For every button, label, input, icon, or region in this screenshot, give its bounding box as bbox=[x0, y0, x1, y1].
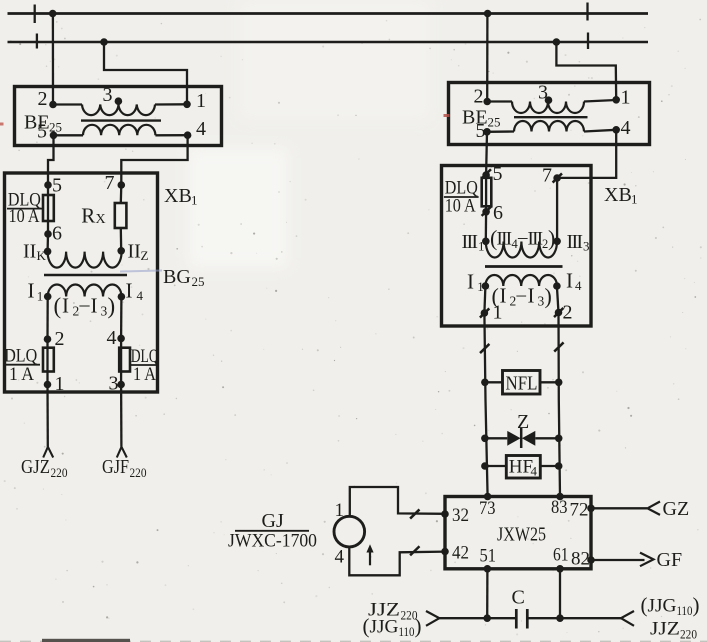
svg-text:73: 73 bbox=[479, 498, 496, 519]
fuse DLQ 1A right bbox=[120, 338, 122, 384]
svg-text:4: 4 bbox=[531, 464, 538, 479]
svg-text:83: 83 bbox=[551, 497, 568, 518]
wire I1 to XB1 pin 1 bbox=[484, 286, 485, 313]
svg-text:2: 2 bbox=[563, 302, 573, 324]
svg-text:10 A: 10 A bbox=[9, 206, 40, 227]
BE25-left pin 3 bbox=[115, 97, 123, 105]
svg-text:7: 7 bbox=[542, 165, 552, 187]
svg-text:R: R bbox=[81, 204, 95, 228]
XB1 pin 6 node with plug slash bbox=[482, 208, 490, 216]
JXW25 pin 73 bbox=[484, 493, 492, 501]
XB1 winding I bbox=[485, 275, 557, 286]
plug connector XB1 box bbox=[442, 166, 592, 327]
svg-text:220: 220 bbox=[680, 627, 697, 642]
svg-text:Z: Z bbox=[141, 248, 149, 263]
svg-text:1: 1 bbox=[37, 289, 44, 304]
BE25-left pin 4 bbox=[184, 131, 192, 139]
svg-text:110: 110 bbox=[677, 604, 693, 618]
arrow chevron GJF bbox=[117, 447, 127, 458]
svg-text:–: – bbox=[79, 294, 91, 316]
wire GJ pin4 to JXW25 pin 42 bbox=[349, 547, 445, 575]
wire pin 7 to winding III3 bbox=[556, 178, 558, 241]
filter HF4 box bbox=[506, 456, 540, 479]
bottom rail left segment bbox=[439, 617, 515, 619]
BE25-right pin 1 bbox=[612, 96, 620, 104]
junction dot NFL right bbox=[555, 379, 563, 387]
BG25 pin 5 node bbox=[44, 181, 52, 189]
polarity arrow of GJ bbox=[369, 550, 371, 566]
junction dot Z left bbox=[481, 435, 489, 443]
junction dot NFL left bbox=[481, 379, 489, 387]
winding II terminal IIk bbox=[44, 248, 52, 256]
wire pin6 to winding IIk bbox=[46, 234, 49, 251]
bus line N2 bbox=[8, 41, 649, 43]
svg-text:XB: XB bbox=[604, 184, 632, 206]
wire BE25-left pin 5 to BG25 pin 5 bbox=[48, 135, 54, 185]
svg-text:BG: BG bbox=[163, 266, 191, 288]
svg-text:4: 4 bbox=[137, 288, 144, 303]
svg-text:GJZ: GJZ bbox=[21, 456, 50, 478]
svg-text:4: 4 bbox=[196, 118, 206, 140]
junction dot bus N1 / left drop bbox=[49, 10, 57, 18]
svg-text:6: 6 bbox=[52, 223, 62, 245]
svg-text:6: 6 bbox=[493, 202, 503, 224]
bus line N1 bbox=[8, 12, 649, 15]
svg-text:XB: XB bbox=[164, 185, 192, 207]
svg-text:C: C bbox=[512, 587, 525, 609]
wire pin 6 to winding III1 bbox=[485, 212, 488, 242]
svg-text:III: III bbox=[462, 231, 478, 253]
relay JXW25 box bbox=[445, 497, 591, 569]
wire pin 72 to GZ bbox=[591, 507, 647, 509]
wire pin 61 down to rail bbox=[559, 569, 561, 618]
XB1 pin 2 node with plug slash bbox=[555, 309, 563, 317]
wire to Z left bbox=[485, 437, 507, 439]
BG25 pin 3 node bbox=[117, 381, 125, 389]
svg-text:1 A: 1 A bbox=[9, 364, 34, 385]
JXW25 pin 42 bbox=[441, 548, 449, 556]
svg-text:GF: GF bbox=[657, 549, 683, 571]
wire bus N2 to BE25-left pin 1 bbox=[104, 42, 187, 104]
svg-text:5: 5 bbox=[37, 121, 47, 143]
svg-text:Z: Z bbox=[517, 411, 529, 433]
svg-text:1: 1 bbox=[477, 279, 484, 294]
svg-text:X: X bbox=[96, 212, 106, 227]
BE25-right pin 3 bbox=[545, 96, 553, 104]
svg-text:1: 1 bbox=[196, 90, 206, 112]
BG25 pin 2 node bbox=[44, 335, 52, 343]
XB1 pin 1 node with plug slash bbox=[481, 309, 489, 317]
svg-text:3: 3 bbox=[103, 84, 113, 106]
wire XB1 pin 1 down to JXW25 pin 73 bbox=[484, 313, 487, 497]
BE25-right primary winding bbox=[487, 100, 512, 102]
junction dot bus N2 / right drop bbox=[553, 38, 561, 46]
winding II terminal IIz bbox=[117, 247, 125, 255]
XB1 winding I terminal I1 bbox=[482, 282, 490, 290]
BG25 pin 6 node bbox=[44, 230, 52, 238]
svg-text:I: I bbox=[126, 279, 133, 303]
fuse DLQ 10A (right) bbox=[485, 175, 487, 212]
transformer BE25-right box bbox=[449, 83, 650, 145]
arrow chevron GJZ bbox=[43, 447, 53, 458]
crossing tick on bus N2 left bbox=[36, 34, 38, 49]
svg-text:): ) bbox=[693, 593, 700, 617]
svg-text:): ) bbox=[545, 284, 552, 309]
svg-text:5: 5 bbox=[493, 163, 503, 185]
JXW25 pin 82 bbox=[587, 556, 595, 564]
svg-text:GJ: GJ bbox=[262, 510, 284, 532]
svg-text:NFL: NFL bbox=[506, 373, 538, 395]
BE25-left secondary winding bbox=[54, 134, 84, 136]
BG25 pin 7 node bbox=[118, 181, 126, 189]
BG25 pin 1 node bbox=[44, 381, 52, 389]
svg-text:3: 3 bbox=[101, 304, 108, 319]
wire pin 3 to GJF arrow bbox=[120, 385, 123, 447]
svg-text:5: 5 bbox=[476, 120, 486, 142]
svg-text:I: I bbox=[28, 279, 35, 303]
wire GJ pin1 to JXW25 pin 32 bbox=[350, 487, 445, 516]
svg-text:5: 5 bbox=[52, 175, 62, 197]
svg-text:–: – bbox=[516, 285, 527, 306]
BE25-left pin 1 bbox=[183, 101, 191, 109]
BE25-left pin 5 bbox=[50, 132, 58, 140]
svg-text:4: 4 bbox=[107, 327, 117, 349]
BG25 relay-transformer box bbox=[5, 173, 158, 392]
svg-text:): ) bbox=[548, 226, 555, 251]
svg-text:2: 2 bbox=[73, 304, 80, 319]
svg-text:3: 3 bbox=[538, 294, 545, 309]
BE25-right pin 2 bbox=[483, 98, 491, 106]
BE25-right secondary winding bbox=[487, 130, 514, 133]
winding III terminal III1 bbox=[482, 238, 490, 246]
crossing tick on bus N2 right bbox=[587, 33, 589, 50]
XB1 core line bbox=[485, 265, 563, 268]
wire pin 51 down to rail bbox=[486, 569, 488, 618]
svg-text:GJF: GJF bbox=[102, 456, 129, 478]
svg-text:JJG: JJG bbox=[370, 617, 399, 638]
svg-text:3: 3 bbox=[538, 82, 548, 104]
svg-text:III: III bbox=[567, 231, 583, 253]
svg-text:61: 61 bbox=[553, 545, 569, 566]
svg-text:51: 51 bbox=[480, 546, 497, 567]
red speck on XB1 edge bbox=[444, 114, 450, 117]
svg-text:I: I bbox=[62, 294, 69, 318]
capacitor C plates bbox=[515, 609, 518, 629]
bottom page-edge scan line bbox=[0, 640, 707, 642]
svg-text:10 A: 10 A bbox=[445, 196, 476, 217]
svg-text:2: 2 bbox=[510, 294, 517, 309]
svg-text:2: 2 bbox=[55, 328, 65, 350]
svg-text:II: II bbox=[23, 241, 36, 263]
XB1 winding I terminal I4 bbox=[553, 282, 561, 290]
junction dot rail right bbox=[556, 614, 564, 622]
JXW25 pin 51 bbox=[484, 565, 492, 573]
BE25-left core line bbox=[81, 119, 161, 121]
wire from HF4 right bbox=[540, 465, 558, 467]
relay GJ coil circle bbox=[334, 516, 365, 547]
svg-text:220: 220 bbox=[51, 465, 68, 480]
svg-text:25: 25 bbox=[192, 274, 205, 289]
BE25-right core line bbox=[514, 116, 588, 118]
wire from NFL right bbox=[540, 381, 559, 383]
svg-text:1: 1 bbox=[55, 373, 65, 395]
svg-text:(: ( bbox=[54, 294, 62, 319]
fuse DLQ 1A left bbox=[46, 339, 48, 384]
junction dot HF4 right bbox=[555, 462, 563, 470]
BG25 pin 4 node bbox=[117, 335, 125, 343]
BE25-left primary winding bbox=[53, 103, 82, 105]
BG25 winding I bbox=[48, 284, 122, 296]
svg-text:JXW25: JXW25 bbox=[497, 524, 546, 546]
wire pin 1 to GJZ arrow bbox=[46, 385, 49, 447]
svg-text:JJZ: JJZ bbox=[650, 619, 680, 640]
svg-text:I: I bbox=[91, 294, 98, 318]
arrow chevron GZ bbox=[648, 502, 661, 515]
svg-text:GZ: GZ bbox=[663, 498, 690, 520]
svg-text:2: 2 bbox=[38, 88, 48, 110]
wire pin 82 to GF bbox=[591, 559, 645, 561]
svg-text:I: I bbox=[566, 269, 573, 293]
svg-text:HF: HF bbox=[509, 457, 533, 478]
XB1 pin 5 node with plug slash bbox=[482, 171, 490, 179]
wire bus N1 to BE25-right pin 2 bbox=[486, 14, 488, 102]
junction dot bus N2 / left drop bbox=[100, 38, 108, 46]
BG25 core line bbox=[44, 274, 127, 277]
svg-text:110: 110 bbox=[399, 625, 415, 639]
JXW25 pin 32 bbox=[441, 510, 449, 518]
winding I terminal I1 bbox=[44, 293, 52, 301]
plug slash near pin 42 bbox=[410, 546, 419, 555]
junction dot bus N1 / right drop bbox=[484, 10, 492, 18]
svg-text:1 A: 1 A bbox=[133, 364, 156, 385]
XB1 pin 7 node with plug slash bbox=[553, 174, 561, 182]
BE25-right pin 5 bbox=[483, 128, 491, 136]
svg-text:1: 1 bbox=[631, 192, 638, 207]
svg-text:1: 1 bbox=[493, 302, 503, 324]
wire from Z right bbox=[535, 437, 558, 439]
JXW25 pin 83 bbox=[556, 493, 564, 501]
wire XB1 pin 2 down to JXW25 pin 83 bbox=[559, 313, 561, 497]
bottom rail right segment bbox=[528, 617, 621, 619]
rail chevron right bbox=[621, 611, 634, 626]
svg-text:1: 1 bbox=[191, 193, 198, 208]
plug slash on left column bbox=[480, 344, 489, 353]
junction dot rail left bbox=[483, 614, 491, 622]
svg-text:2: 2 bbox=[474, 86, 484, 108]
BG25 winding II bbox=[48, 252, 122, 268]
blue pen mark near BG25 bbox=[120, 271, 162, 272]
wire BE25-left pin 4 to BG25 pin 7 bbox=[121, 135, 187, 185]
svg-text:(: ( bbox=[641, 593, 648, 617]
svg-text:3: 3 bbox=[109, 373, 119, 395]
svg-text:72: 72 bbox=[570, 500, 589, 521]
bidirectional diode Z symbol bbox=[507, 431, 520, 446]
svg-text:4: 4 bbox=[621, 117, 631, 139]
svg-text:7: 7 bbox=[105, 172, 115, 194]
arrow chevron GF bbox=[640, 553, 654, 567]
svg-text:4: 4 bbox=[575, 278, 582, 293]
red speck at left margin bbox=[0, 123, 4, 126]
svg-text:42: 42 bbox=[452, 543, 469, 564]
svg-text:): ) bbox=[108, 294, 116, 319]
svg-text:): ) bbox=[415, 614, 422, 638]
svg-text:I: I bbox=[467, 270, 474, 294]
XB1 winding III bbox=[486, 242, 557, 258]
filter NFL box bbox=[503, 371, 541, 395]
svg-text:3: 3 bbox=[583, 239, 590, 254]
plug slash on right column bbox=[554, 342, 563, 351]
crossing tick on bus N1 right bbox=[586, 3, 588, 21]
wire bus N1 to BE25-left pin 2 bbox=[52, 14, 54, 105]
JXW25 pin 72 bbox=[587, 505, 595, 513]
rail chevron left bbox=[426, 611, 439, 626]
svg-text:1: 1 bbox=[621, 87, 631, 109]
winding I terminal I4 bbox=[118, 293, 126, 301]
wire I4 to pin 4 bbox=[120, 297, 123, 339]
winding III terminal III3 bbox=[553, 238, 561, 246]
svg-text:82: 82 bbox=[571, 549, 590, 570]
svg-text:JJG: JJG bbox=[648, 596, 677, 617]
JXW25 pin 61 bbox=[556, 565, 564, 573]
svg-text:I: I bbox=[528, 284, 535, 308]
svg-text:K: K bbox=[37, 248, 47, 263]
wire to NFL left bbox=[485, 381, 503, 383]
svg-text:1: 1 bbox=[335, 500, 345, 521]
BE25-left pin 2 bbox=[49, 101, 57, 109]
crossing tick on bus N1 left bbox=[34, 5, 36, 24]
wire I4 to XB1 pin 2 bbox=[557, 286, 559, 313]
svg-text:II: II bbox=[128, 241, 141, 263]
svg-text:JWXC-1700: JWXC-1700 bbox=[228, 531, 317, 552]
junction dot Z right bbox=[555, 435, 563, 443]
transformer BE25-left box bbox=[15, 87, 222, 146]
fuse DLQ 10A (left) bbox=[47, 185, 49, 234]
junction dot HF4 left bbox=[481, 462, 489, 470]
svg-text:220: 220 bbox=[130, 465, 147, 480]
wire BE25-right pin 5 to XB1 pin 5 bbox=[485, 132, 488, 175]
wire bus N2 to BE25-right pin 1 bbox=[556, 42, 616, 100]
wire BE25-right pin 4 to XB1 pin 7 bbox=[557, 130, 616, 178]
svg-text:1: 1 bbox=[478, 239, 485, 254]
svg-text:32: 32 bbox=[452, 505, 469, 526]
plug slash near pin 32 bbox=[410, 509, 419, 518]
wire I1 to pin 2 bbox=[46, 297, 49, 340]
wire to HF4 left bbox=[485, 465, 506, 467]
svg-text:25: 25 bbox=[488, 115, 501, 130]
BE25-right pin 4 bbox=[612, 126, 620, 134]
svg-text:(: ( bbox=[363, 614, 370, 638]
svg-text:4: 4 bbox=[335, 547, 345, 568]
